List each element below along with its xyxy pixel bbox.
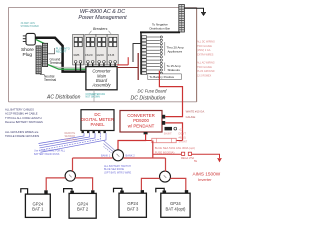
sense wire to switch b	[104, 144, 114, 152]
battery 1 box	[25, 194, 50, 217]
svg-text:TWO GAUGE: TWO GAUGE	[197, 45, 212, 48]
ground wire plug to terminal strip	[36, 40, 45, 44]
wire converter bottom to bank switch	[118, 134, 146, 150]
shunt terminal	[174, 127, 177, 130]
svg-text:#6(10): #6(10)	[179, 136, 186, 139]
svg-text:Main: Main	[97, 73, 107, 78]
meter terminal 3	[93, 131, 95, 134]
sense wire 5	[41, 133, 107, 152]
battery bus left	[73, 157, 113, 159]
svg-text:GP24: GP24	[77, 201, 88, 206]
converter terminal right 1	[162, 115, 165, 119]
battery bus right	[123, 157, 165, 159]
battery 2 box	[69, 193, 96, 218]
sense wire to switch c	[104, 147, 112, 154]
svg-text:BATTERY BANK RUNS: BATTERY BANK RUNS	[34, 153, 60, 156]
battery switch bank1 circle A	[65, 171, 75, 181]
ground wire terminal strip to converter	[46, 64, 86, 69]
svg-text:DC Distribution: DC Distribution	[131, 95, 166, 101]
wire mega fuse to inverter	[192, 154, 220, 158]
wire circle C to bat4	[170, 178, 186, 190]
svg-text:30/B: 30/B	[73, 53, 79, 57]
dc fuse row 4	[142, 46, 163, 49]
dc fuse row 7	[142, 55, 163, 58]
svg-text:Thru 20 Amp: Thru 20 Amp	[167, 46, 185, 50]
dc fuse row 10	[142, 65, 163, 68]
shore plug prong 2	[23, 38, 26, 40]
svg-text:PD9200: PD9200	[133, 118, 149, 123]
svg-text:ALL DC WIRING: ALL DC WIRING	[197, 41, 215, 44]
battery switch bank1 knob	[69, 175, 72, 178]
sense wire 1	[39, 133, 85, 144]
wire breaker3 down b	[103, 63, 105, 67]
inline fuse tick 1	[156, 138, 158, 142]
svg-text:30 AMP 120V: 30 AMP 120V	[21, 22, 36, 25]
svg-text:PANEL: PANEL	[90, 122, 105, 127]
svg-text:AIMS 1500W: AIMS 1500W	[193, 171, 221, 176]
svg-text:Shore: Shore	[21, 47, 34, 53]
svg-text:DC: DC	[94, 112, 100, 117]
sense wire to switch a	[104, 141, 115, 151]
dc fuse row 9	[142, 62, 163, 65]
enclosure border right	[196, 7, 198, 101]
battery 1 negative post hook	[21, 189, 28, 194]
svg-text:DIGITAL METER: DIGITAL METER	[81, 117, 114, 122]
sense wire 4 dashed	[40, 133, 101, 150]
svg-text:GP24: GP24	[127, 201, 138, 206]
battery positive wire fuse board to converter	[159, 71, 182, 117]
svg-text:SHUNT: SHUNT	[164, 133, 173, 135]
meter terminal 1	[82, 131, 84, 134]
wire circle C to bat3	[141, 178, 159, 190]
feeder wire to fuse board	[133, 44, 141, 62]
shore plug body	[26, 33, 35, 45]
mega fuse terminal 2	[188, 152, 191, 155]
sense wire 2	[39, 133, 90, 146]
svg-text:Board: Board	[96, 78, 108, 83]
battery 2 negative post	[70, 191, 74, 194]
svg-text:(150V) 2 GA.: (150V) 2 GA.	[197, 49, 211, 52]
svg-text:Appliances: Appliances	[168, 50, 183, 54]
dc fuse row 2	[142, 39, 163, 42]
battery 2 positive post	[91, 190, 94, 193]
dc fuse row 3	[142, 42, 163, 45]
svg-text:14/20: 14/20	[96, 53, 104, 57]
svg-text:(OPT BAT) MTRS WIRE: (OPT BAT) MTRS WIRE	[104, 172, 131, 175]
wire fuse to bus	[152, 141, 154, 159]
breaker module 1	[73, 34, 84, 65]
dc fuse link wire	[146, 140, 183, 142]
svg-text:EXTRA WIRES: EXTRA WIRES	[197, 54, 214, 57]
battery 4 negative post	[163, 191, 167, 194]
dc wire breaker4 to bus red	[127, 57, 129, 65]
breaker module 2	[85, 34, 96, 65]
battery 4 negative hook	[156, 188, 164, 192]
svg-text:GP24: GP24	[170, 201, 181, 206]
svg-text:MEGA 175A: MEGA 175A	[181, 157, 195, 160]
svg-text:Distribution Bar: Distribution Bar	[150, 26, 171, 30]
battery 2 negative hook	[64, 189, 72, 193]
converter terminal bottom	[144, 132, 148, 134]
dc fuse row 1	[142, 36, 163, 39]
svg-text:Breakers: Breakers	[93, 27, 108, 31]
dc fuse row 5	[142, 49, 163, 52]
svg-text:AC Distribution: AC Distribution	[46, 95, 81, 101]
brace slideouts	[164, 63, 166, 72]
svg-text:12-2 ROMEX: 12-2 ROMEX	[197, 75, 212, 78]
sense wire 3	[40, 133, 96, 148]
svg-text:Terminal: Terminal	[44, 78, 56, 82]
svg-text:BLUE SEA 5191 ANL 300A (opt): BLUE SEA 5191 ANL 300A (opt)	[155, 146, 195, 150]
label to battery positive box	[148, 74, 182, 80]
svg-text:GP24: GP24	[32, 201, 43, 206]
negative bus wire to bar	[140, 31, 180, 33]
meter terminal 4	[98, 131, 100, 134]
svg-text:BAT 2: BAT 2	[77, 207, 89, 212]
leader breakers left	[89, 31, 92, 34]
battery switch bank3 circle C	[160, 171, 171, 182]
battery 1 positive post	[44, 190, 47, 194]
breaker module 3	[96, 34, 107, 65]
wire breaker1 down b	[80, 63, 82, 71]
converter main board assembly box	[86, 67, 117, 90]
fuse board left rail	[140, 32, 142, 74]
wire breaker4 down a	[109, 63, 111, 67]
mega fuse terminal 1	[182, 152, 185, 155]
wire breaker1 down a	[75, 63, 77, 71]
svg-text:Plug: Plug	[23, 52, 33, 58]
wire circle A to bat2	[75, 178, 92, 190]
wire breaker2 down b	[92, 63, 94, 67]
wire breaker4 down b	[114, 63, 116, 67]
svg-text:BLUE SEA 9003E: BLUE SEA 9003E	[104, 168, 124, 171]
neutral wire terminal strip to converter	[41, 63, 86, 67]
AC distribution enclosure border left	[8, 7, 10, 102]
inverter arrow	[217, 158, 221, 162]
battery switch bank2 circle B	[113, 150, 124, 161]
wire circle A to bat1	[46, 178, 65, 190]
dc wire from converter dark red	[117, 67, 138, 69]
battery 4 positive post	[185, 190, 188, 193]
battery 3 box	[119, 193, 146, 217]
svg-text:Use #6 AWG WIRE FOR ALL: Use #6 AWG WIRE FOR ALL	[34, 150, 66, 153]
AC distribution enclosure border top	[9, 6, 197, 8]
svg-text:Inverter: Inverter	[198, 177, 212, 182]
dc fuse row 8	[142, 59, 163, 62]
breaker module 4	[107, 34, 118, 65]
svg-text:To: To	[194, 159, 198, 163]
svg-text:BAT 1: BAT 1	[32, 207, 44, 212]
svg-text:BAT 4(opt): BAT 4(opt)	[165, 206, 185, 211]
svg-text:BAT 3: BAT 3	[127, 206, 139, 211]
svg-text:WIRE RUN: WIRE RUN	[65, 139, 78, 142]
shore plug prong 3	[23, 41, 26, 43]
svg-text:TWO GAUGE: TWO GAUGE	[197, 66, 212, 69]
svg-text:To Negative: To Negative	[152, 23, 168, 27]
svg-text:Converter: Converter	[92, 69, 111, 74]
ground wire bar to chassis	[184, 8, 203, 12]
wire to inverter fuse	[153, 153, 181, 155]
meter terminal 2	[87, 131, 89, 134]
svg-text:ALL BATTERY SWITCH: ALL BATTERY SWITCH	[104, 165, 131, 168]
battery switch bank2 knob	[117, 154, 120, 157]
dc fuse row 12	[142, 72, 163, 75]
dc fuse row 11	[142, 69, 163, 72]
svg-text:CONVERTER: CONVERTER	[127, 113, 155, 118]
svg-text:+12: +12	[179, 128, 184, 131]
converter terminal right 2	[162, 121, 165, 125]
svg-text:15-B: 15-B	[108, 53, 114, 57]
svg-text:Slideouts: Slideouts	[168, 68, 181, 72]
battery 4 box	[161, 193, 190, 217]
neutral terminal strip	[36, 46, 41, 74]
negative distribution bar	[179, 5, 185, 33]
battery 3 negative post	[120, 191, 124, 194]
ground terminal strip	[42, 43, 47, 66]
wire converter terminal 2 to fuse link	[165, 123, 182, 141]
svg-text:PLUS GROUND: PLUS GROUND	[197, 70, 215, 73]
dc fuse row 6	[142, 52, 163, 55]
svg-text:Power Management: Power Management	[78, 15, 127, 21]
wire breaker2 down a	[87, 63, 89, 67]
svg-text:To 15 Amp: To 15 Amp	[167, 64, 182, 68]
svg-text:To Battery Positive: To Battery Positive	[149, 75, 174, 79]
svg-text:NOT SHOWN: NOT SHOWN	[86, 97, 101, 99]
battery switch bank3 knob	[164, 175, 167, 178]
riser bus to circle A	[72, 158, 74, 171]
wire breaker3 down a	[98, 63, 100, 67]
inline fuse body	[152, 138, 176, 142]
svg-text:SENSOR: SENSOR	[65, 135, 76, 138]
svg-text:SHORE POWER: SHORE POWER	[21, 25, 39, 28]
leader neutral terminal	[40, 73, 45, 75]
dc wire fuse board feed dark red vertical	[137, 53, 139, 80]
svg-text:Assembly: Assembly	[91, 83, 111, 88]
riser bus to circle C	[165, 158, 167, 171]
svg-text:FUSE 60(200A): FUSE 60(200A)	[155, 150, 175, 154]
dc digital meter panel box	[81, 110, 114, 131]
svg-text:ALL AC WIRING: ALL AC WIRING	[197, 62, 215, 65]
svg-text:DC Fuse Board: DC Fuse Board	[138, 88, 168, 93]
shore power cable	[35, 38, 86, 72]
shunt block	[165, 127, 173, 130]
battery 3 positive post	[141, 190, 144, 193]
svg-text:15/20: 15/20	[85, 53, 93, 57]
dc positive wire from converter bright	[117, 64, 128, 66]
meter terminal 5	[104, 131, 106, 134]
chassis ground arrow	[201, 13, 206, 17]
enclosure border bottom	[9, 101, 197, 103]
svg-text:w/ PENDANT: w/ PENDANT	[128, 124, 155, 129]
wire assembly to enclosure bottom	[93, 90, 95, 102]
inline fuse tick 2	[171, 138, 173, 142]
svg-text:Terminal: Terminal	[50, 61, 62, 65]
leader breakers right	[109, 31, 112, 34]
battery 3 negative hook	[114, 188, 122, 192]
brace appliances	[164, 42, 166, 56]
svg-text:REMOTE: REMOTE	[65, 132, 76, 135]
converter pd9200 box	[120, 111, 162, 133]
leader plug-into	[48, 48, 54, 54]
shore plug prong 1	[23, 35, 26, 37]
svg-text:DON'T: DON'T	[179, 132, 187, 135]
